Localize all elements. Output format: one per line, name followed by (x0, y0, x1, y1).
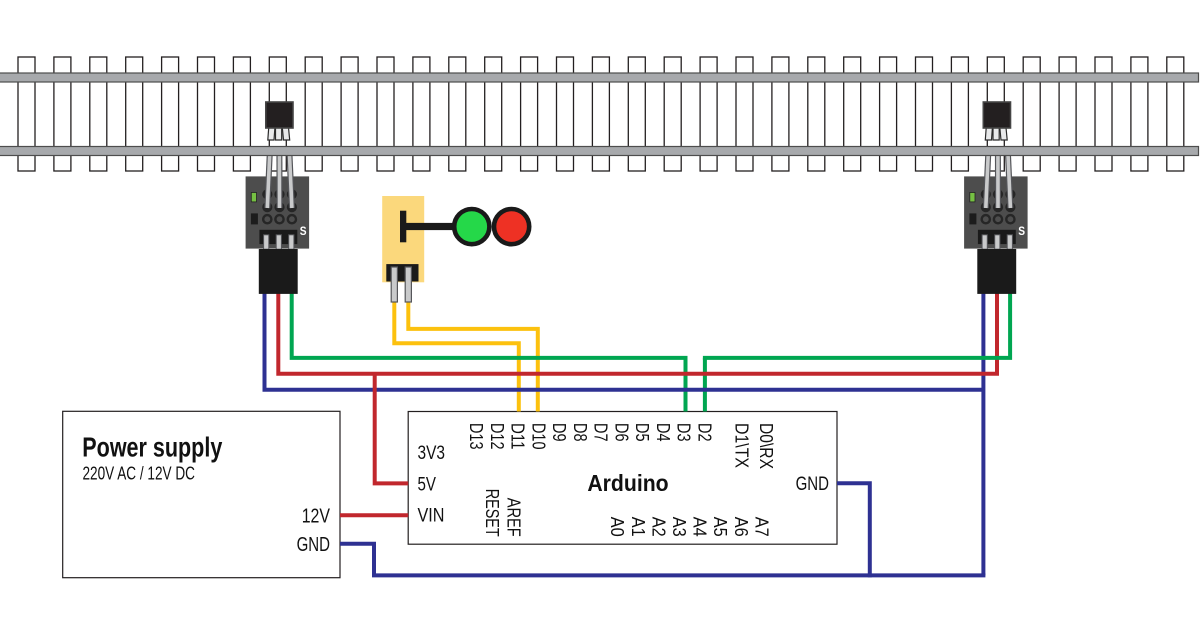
wire red bus left to right (278, 290, 997, 374)
svg-text:220V AC / 12V DC: 220V AC / 12V DC (83, 464, 196, 484)
rail bottom (0, 147, 1199, 156)
wire blue bottom run to power GND (340, 544, 985, 576)
wire blue left module to right module vertical (265, 290, 984, 390)
wire yellow signal left pin to D11 (394, 296, 519, 412)
wire green stub to D3 (684, 358, 688, 412)
svg-text:D1\TX: D1\TX (732, 423, 752, 468)
wire blue right module down (981, 290, 985, 575)
wire green stub to D2 (703, 358, 707, 412)
wire green left module to D3 (292, 290, 688, 358)
connector block right (977, 249, 1016, 294)
svg-text:D13: D13 (466, 423, 486, 450)
hall sensor U2 (right, on track) (983, 102, 1010, 140)
svg-text:A2: A2 (648, 517, 668, 537)
signal mast (400, 211, 406, 243)
svg-text:A4: A4 (690, 517, 710, 537)
svg-text:D3: D3 (674, 423, 694, 442)
svg-text:A7: A7 (751, 517, 771, 537)
signal red lamp (494, 209, 529, 244)
svg-text:A1: A1 (628, 517, 648, 537)
svg-text:S: S (1018, 224, 1025, 238)
svg-text:GND: GND (796, 474, 829, 495)
svg-text:D2: D2 (694, 423, 714, 442)
svg-text:D11: D11 (508, 423, 528, 450)
svg-text:D0\RX: D0\RX (756, 423, 776, 469)
svg-text:A3: A3 (669, 517, 689, 537)
signal pins (391, 267, 411, 302)
svg-text:S: S (300, 224, 307, 238)
svg-text:D10: D10 (528, 423, 548, 450)
svg-text:AREF: AREF (504, 498, 524, 537)
svg-text:3V3: 3V3 (418, 443, 446, 464)
connector block left (259, 249, 298, 294)
svg-text:D4: D4 (653, 423, 673, 442)
svg-text:VIN: VIN (418, 505, 445, 526)
svg-text:RESET: RESET (482, 489, 502, 537)
power supply box (63, 411, 340, 577)
svg-text:A0: A0 (607, 517, 627, 537)
svg-text:D5: D5 (632, 423, 652, 442)
wire red branch to 5V (375, 374, 409, 484)
svg-text:D12: D12 (487, 423, 507, 450)
wire red 12V to VIN (340, 513, 408, 517)
sensor module S1 (left) (246, 148, 310, 249)
wire green right module to D2 (703, 290, 1010, 358)
track sleepers (18, 57, 1184, 171)
signal green lamp (454, 209, 489, 244)
svg-text:5V: 5V (418, 474, 437, 495)
hall sensor U1 (left, on track) (266, 102, 293, 140)
wire blue arduino GND (837, 483, 870, 577)
signal connector (386, 264, 418, 281)
svg-text:A6: A6 (731, 517, 751, 537)
svg-text:D9: D9 (549, 423, 569, 442)
wire yellow signal right pin to D10 (408, 296, 538, 412)
svg-text:Arduino: Arduino (587, 470, 668, 496)
svg-text:D6: D6 (611, 423, 631, 442)
sensor module S2 (right) (964, 148, 1028, 249)
op board Arduino box (408, 412, 837, 545)
svg-text:D8: D8 (570, 423, 590, 442)
svg-text:D7: D7 (591, 423, 611, 442)
svg-text:12V: 12V (302, 505, 331, 527)
rail top (0, 73, 1199, 82)
signal base (yellow) (382, 196, 424, 282)
svg-text:Power supply: Power supply (82, 432, 222, 463)
svg-text:A5: A5 (710, 517, 730, 537)
svg-text:GND: GND (297, 534, 330, 556)
